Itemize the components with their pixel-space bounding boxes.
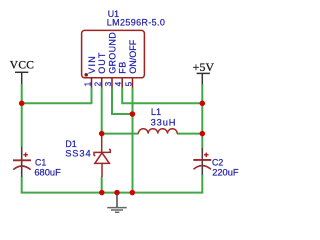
wire ground rail	[21, 192, 203, 194]
svg-text:4: 4	[114, 81, 123, 86]
wire switch node to inductor	[102, 133, 139, 135]
svg-text:3: 3	[104, 81, 113, 86]
pin 1 VIN stub	[91, 78, 93, 88]
wire C1 bottom to ground rail	[21, 177, 23, 194]
svg-text:SS34: SS34	[65, 148, 91, 158]
svg-text:680uF: 680uF	[34, 168, 61, 178]
pin 4 FB stub	[121, 78, 123, 88]
svg-text:VIN: VIN	[87, 55, 97, 74]
wire C2 bottom to ground rail	[201, 174, 203, 194]
wire pin5 ON/OFF to ground rail	[132, 88, 134, 193]
VCC power symbol	[15, 72, 28, 84]
svg-text:33uH: 33uH	[151, 117, 177, 127]
wire VCC stem to C1	[21, 84, 203, 194]
node GROUND pin3/pin5 junction	[130, 111, 136, 117]
capacitor C1	[13, 147, 31, 177]
node ground symbol junction	[114, 190, 120, 196]
node D1 / ground rail junction	[99, 190, 105, 196]
svg-text:C1: C1	[35, 157, 46, 167]
svg-text:L1: L1	[151, 107, 161, 117]
diode D1	[94, 134, 110, 177]
wire pin3 GROUND elbow	[112, 88, 132, 115]
svg-text:OUT: OUT	[97, 51, 107, 73]
wire pin1 to VCC rail	[22, 88, 92, 104]
svg-text:GROUND: GROUND	[107, 32, 117, 74]
wire D1 anode to ground rail	[101, 177, 103, 193]
svg-text:1: 1	[84, 81, 93, 86]
U1 pin-1 marker dot	[84, 73, 88, 77]
wire pin2 OUT down	[101, 88, 103, 134]
svg-text:+5V: +5V	[193, 60, 215, 74]
svg-text:220uF: 220uF	[212, 168, 239, 178]
ground symbol	[107, 194, 126, 212]
svg-text:D1: D1	[65, 139, 76, 149]
svg-text:C2: C2	[212, 157, 223, 167]
node VCC rail junction	[19, 101, 25, 107]
node pin5 wire / ground rail junction	[130, 190, 136, 196]
node L1 / +5V junction	[200, 131, 206, 137]
svg-text:ON/OFF: ON/OFF	[128, 39, 138, 73]
wire pin4 FB to +5V rail	[122, 88, 202, 104]
+5V power symbol	[197, 73, 210, 84]
pin 5 ON/OFF stub	[132, 78, 134, 88]
pin 3 GROUND stub	[111, 78, 113, 88]
capacitor C2	[193, 148, 211, 175]
wire +5V stem down	[201, 84, 203, 148]
IC U1 (LM2596R-5.0 regulator body)	[82, 30, 145, 77]
svg-text:5: 5	[125, 81, 134, 86]
svg-text:VCC: VCC	[10, 60, 34, 72]
svg-text:2: 2	[94, 81, 103, 86]
node switch / D1 junction	[99, 131, 105, 137]
inductor L1	[138, 129, 177, 134]
pin 2 OUT stub	[101, 78, 103, 88]
node FB / +5V junction	[200, 101, 206, 107]
svg-text:LM2596R-5.0: LM2596R-5.0	[107, 18, 165, 28]
wire inductor to +5V rail	[177, 133, 203, 135]
svg-text:FB: FB	[118, 61, 128, 74]
